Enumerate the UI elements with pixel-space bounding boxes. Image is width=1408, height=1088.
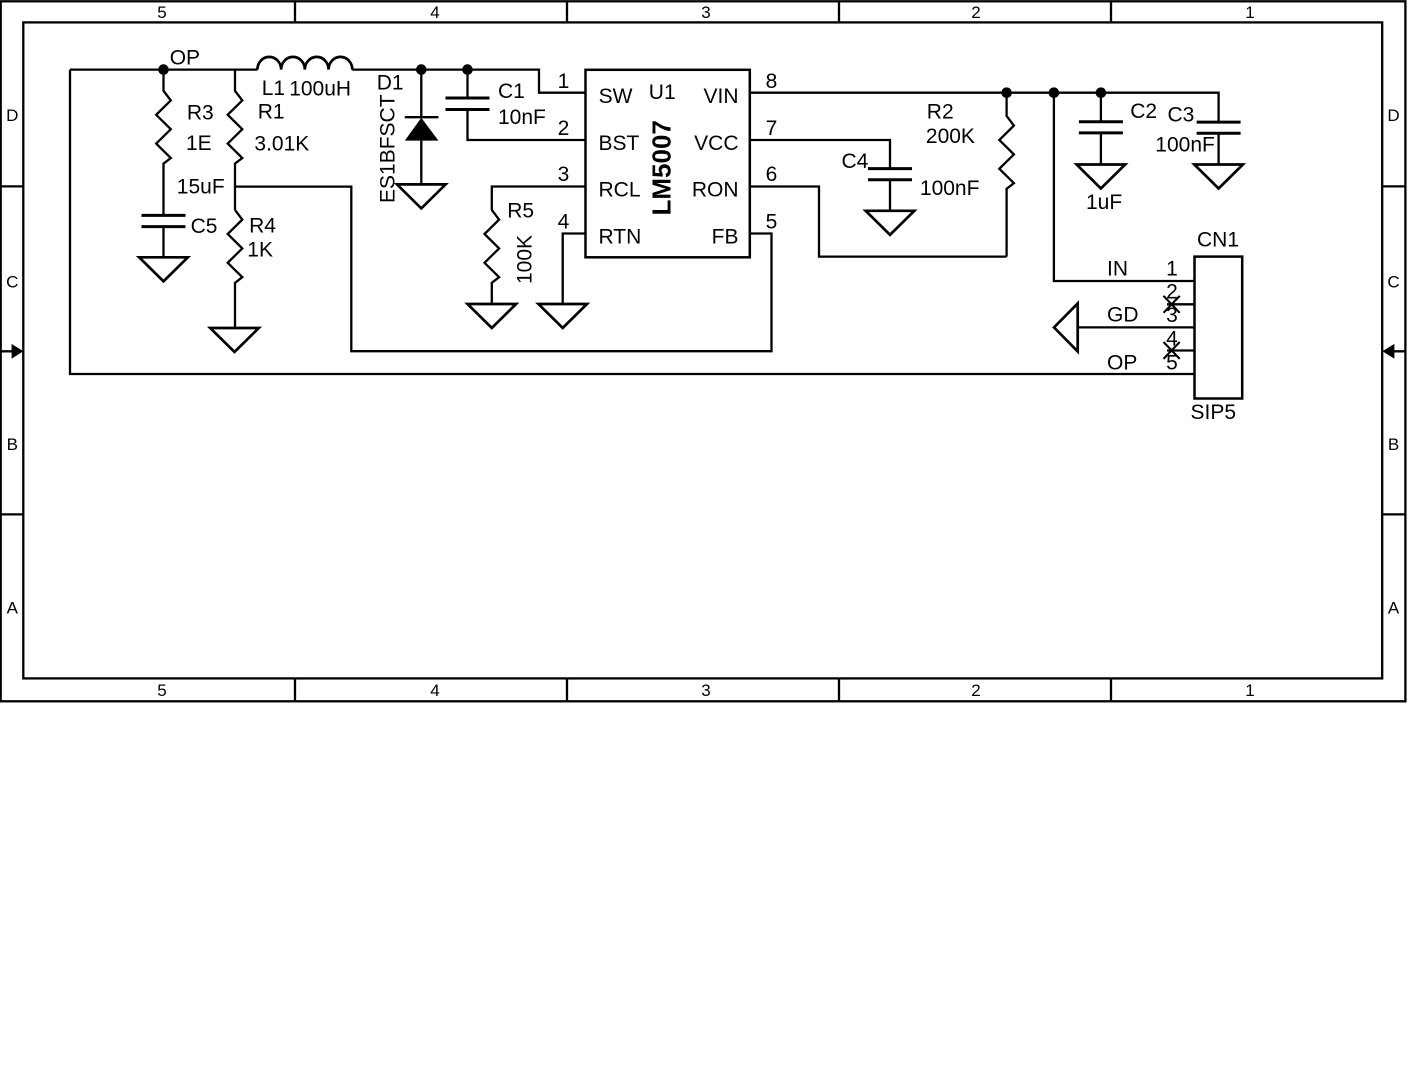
svg-text:5: 5 <box>157 3 166 22</box>
svg-text:C1: C1 <box>498 80 525 103</box>
svg-text:8: 8 <box>766 70 778 93</box>
svg-text:5: 5 <box>766 211 778 234</box>
resistor R2 <box>999 93 1014 257</box>
svg-text:1K: 1K <box>247 239 273 262</box>
svg-text:GD: GD <box>1107 304 1139 327</box>
capacitor C3 <box>1197 122 1241 133</box>
arrow GD input <box>1054 303 1078 351</box>
wire IN net to CN1 pin 1 <box>1054 93 1195 281</box>
ground (C4) <box>866 211 915 235</box>
wire OP net top run <box>70 70 586 93</box>
svg-text:4: 4 <box>430 681 439 700</box>
svg-text:1: 1 <box>558 70 570 93</box>
wire RON net pin 6 <box>750 187 1007 257</box>
svg-text:R1: R1 <box>258 101 285 124</box>
svg-text:4: 4 <box>430 3 439 22</box>
svg-text:R2: R2 <box>927 100 954 123</box>
resistor R3 <box>156 70 171 216</box>
node dot C2 <box>1096 87 1107 98</box>
svg-text:RCL: RCL <box>599 179 641 202</box>
node OP junction dot <box>158 64 169 75</box>
svg-text:2: 2 <box>1166 281 1178 304</box>
svg-text:U1: U1 <box>649 81 676 104</box>
svg-text:100nF: 100nF <box>920 177 980 200</box>
wire CN1 pin 2 stub <box>1167 303 1195 305</box>
wire OP net left drop and bottom bus to CN1 pin 5 <box>70 70 1195 374</box>
node dot C1 <box>462 64 473 75</box>
ground (C5) <box>139 257 188 281</box>
inductor L1 <box>257 57 352 70</box>
svg-text:3: 3 <box>701 681 710 700</box>
svg-text:BST: BST <box>599 132 640 155</box>
wire GD net <box>1078 326 1195 328</box>
ground (D1) <box>397 184 446 208</box>
svg-text:5: 5 <box>1166 351 1178 374</box>
svg-text:D: D <box>1387 106 1399 125</box>
svg-text:D1: D1 <box>377 71 404 94</box>
wire VCC net pin 7 <box>750 140 890 169</box>
svg-text:C4: C4 <box>842 150 869 173</box>
svg-text:100nF: 100nF <box>1155 134 1215 157</box>
wire VIN net pin 8 <box>750 93 1219 122</box>
svg-text:B: B <box>1388 435 1399 454</box>
capacitor C4 <box>868 169 912 180</box>
svg-text:A: A <box>1388 598 1400 617</box>
svg-text:5: 5 <box>157 681 166 700</box>
svg-text:FB: FB <box>712 226 739 249</box>
svg-text:SW: SW <box>599 85 633 108</box>
svg-text:LM5007: LM5007 <box>647 120 677 215</box>
svg-text:10nF: 10nF <box>498 106 546 129</box>
svg-text:C: C <box>1387 272 1399 291</box>
svg-text:C5: C5 <box>191 215 218 238</box>
svg-text:ES1BFSCT: ES1BFSCT <box>377 94 400 203</box>
svg-text:B: B <box>7 435 18 454</box>
svg-text:C2: C2 <box>1130 100 1157 123</box>
capacitor C5 <box>142 215 186 226</box>
resistor R4 <box>228 210 243 328</box>
svg-text:C3: C3 <box>1168 104 1195 127</box>
node dot IN <box>1049 87 1060 98</box>
svg-text:1: 1 <box>1245 681 1254 700</box>
svg-text:2: 2 <box>971 3 980 22</box>
capacitor C1 <box>468 70 586 140</box>
wire CN1 pin 4 stub <box>1167 349 1195 351</box>
svg-text:IN: IN <box>1107 257 1128 280</box>
ground (RTN) <box>538 304 587 328</box>
svg-text:RTN: RTN <box>599 226 642 249</box>
svg-text:6: 6 <box>766 163 778 186</box>
diode D1 <box>420 70 422 185</box>
connector CN1 <box>1195 257 1243 399</box>
resistor R5 <box>485 210 500 304</box>
svg-text:4: 4 <box>558 211 570 234</box>
svg-text:100K: 100K <box>514 235 537 284</box>
svg-text:3: 3 <box>701 3 710 22</box>
svg-text:15uF: 15uF <box>177 175 225 198</box>
svg-text:VCC: VCC <box>694 132 738 155</box>
no-connect X pin 2 <box>1164 296 1180 313</box>
svg-text:SIP5: SIP5 <box>1191 401 1237 424</box>
svg-text:200K: 200K <box>926 125 975 148</box>
node dot R2 <box>1001 87 1012 98</box>
wire RCL net pin 3 <box>492 187 586 211</box>
svg-text:D: D <box>6 106 18 125</box>
svg-text:L1: L1 <box>262 77 285 100</box>
svg-text:1: 1 <box>1245 3 1254 22</box>
node dot D1 <box>416 64 427 75</box>
svg-text:VIN: VIN <box>703 85 738 108</box>
svg-text:7: 7 <box>766 117 778 140</box>
wire FB net from R1/R4 junction to pin 5 <box>235 187 772 352</box>
svg-text:3: 3 <box>1166 304 1178 327</box>
no-connect X pin 4 <box>1164 342 1180 359</box>
svg-text:4: 4 <box>1166 328 1178 351</box>
svg-text:1E: 1E <box>186 132 212 155</box>
ground (C2) <box>1077 165 1126 189</box>
svg-text:R3: R3 <box>187 101 214 124</box>
svg-text:R4: R4 <box>249 214 276 237</box>
ground (R4) <box>210 328 259 352</box>
resistor R1 <box>228 70 243 210</box>
svg-text:1uF: 1uF <box>1086 191 1122 214</box>
svg-text:C: C <box>6 272 18 291</box>
ground (R5) <box>468 304 517 328</box>
svg-text:CN1: CN1 <box>1197 229 1239 252</box>
svg-text:2: 2 <box>971 681 980 700</box>
svg-text:2: 2 <box>558 117 570 140</box>
svg-text:100uH: 100uH <box>289 78 351 101</box>
svg-text:1: 1 <box>1166 257 1178 280</box>
svg-text:R5: R5 <box>507 200 534 223</box>
wire RTN net pin 4 <box>563 234 586 305</box>
svg-text:3: 3 <box>558 163 570 186</box>
svg-text:OP: OP <box>170 47 200 70</box>
svg-text:RON: RON <box>692 179 739 202</box>
IC U1 LM5007 <box>586 70 750 257</box>
svg-text:A: A <box>7 598 19 617</box>
capacitor C2 <box>1100 93 1102 165</box>
ground (C3) <box>1194 165 1243 189</box>
svg-text:OP: OP <box>1107 351 1137 374</box>
svg-text:3.01K: 3.01K <box>254 132 309 155</box>
